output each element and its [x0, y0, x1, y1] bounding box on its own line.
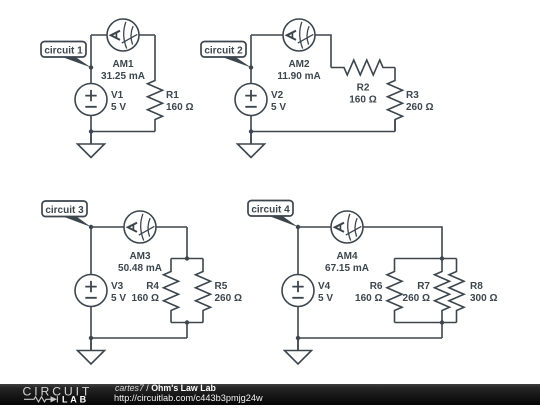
node circuit4 bottom node	[296, 336, 300, 340]
label callout "circuit 4"	[248, 201, 298, 228]
wire circuit2 left rail	[250, 35, 252, 144]
ammeter AM1	[107, 19, 139, 51]
svg-text:R6: R6	[370, 281, 383, 292]
label callout "circuit 3"	[42, 201, 91, 227]
node circuit4 parallel bottom node	[440, 320, 444, 324]
node circuit3 parallel top node	[185, 256, 189, 260]
voltage source V1	[75, 84, 107, 116]
wire circuit3 left rail	[90, 227, 92, 351]
svg-text:5 V: 5 V	[271, 102, 286, 113]
svg-text:V1: V1	[111, 90, 124, 101]
svg-text:R5: R5	[215, 281, 228, 292]
voltage source V3	[75, 275, 107, 307]
svg-text:V4: V4	[318, 281, 331, 292]
wire circuit3 bottom rail	[91, 337, 187, 339]
label callout "circuit 1"	[41, 42, 91, 68]
wire circuit4 parallel top bar	[395, 258, 457, 260]
resistor R7	[435, 259, 450, 323]
voltage source V2	[235, 84, 267, 116]
CircuitLab logo text	[23, 385, 93, 405]
svg-text:31.25 mA: 31.25 mA	[101, 71, 145, 82]
wire circuit4 top rail left	[298, 226, 331, 228]
wire circuit3 parallel bottom bar	[171, 322, 203, 324]
resistor R2	[331, 60, 395, 75]
svg-text:160 Ω: 160 Ω	[349, 95, 376, 106]
node circuit3 parallel bottom node	[185, 320, 189, 324]
svg-text:circuit 3: circuit 3	[45, 205, 84, 216]
svg-text:260 Ω: 260 Ω	[403, 293, 430, 304]
svg-text:11.90 mA: 11.90 mA	[277, 71, 320, 82]
resistor R5	[196, 259, 211, 323]
ground (circuit 3)	[78, 338, 105, 364]
node circuit1 bottom node	[89, 129, 93, 133]
ground (circuit 4)	[285, 338, 312, 364]
wire circuit3 parallel top bar	[171, 258, 203, 260]
resistor R4	[164, 259, 179, 323]
svg-text:160 Ω: 160 Ω	[355, 293, 382, 304]
svg-text:AM2: AM2	[288, 59, 310, 70]
svg-text:160 Ω: 160 Ω	[166, 102, 193, 113]
node circuit4 parallel top node	[440, 256, 444, 260]
voltage source V4	[282, 275, 314, 307]
wire circuit4 parallel bottom bar	[395, 322, 457, 324]
wire circuit4 left rail	[297, 227, 299, 351]
wire circuit3 lower drop	[186, 323, 188, 339]
ground (circuit 1)	[78, 132, 105, 158]
wire circuit4 lower drop	[441, 323, 443, 339]
ammeter AM2	[283, 19, 315, 51]
svg-text:5 V: 5 V	[318, 293, 333, 304]
svg-text:R1: R1	[166, 90, 179, 101]
svg-text:160 Ω: 160 Ω	[132, 293, 159, 304]
label callout "circuit 2"	[201, 42, 251, 68]
svg-text:R2: R2	[357, 83, 370, 94]
svg-text:50.48 mA: 50.48 mA	[118, 263, 162, 274]
wire circuit1 bottom rail	[91, 131, 155, 133]
logo resistor-diode glyph	[24, 396, 57, 402]
wire circuit2 top right segment	[283, 35, 331, 68]
node circuit2 label node	[249, 65, 253, 69]
svg-text:R7: R7	[417, 281, 430, 292]
wire circuit2 top rail	[251, 34, 283, 36]
node circuit3 bottom node	[89, 336, 93, 340]
svg-text:R3: R3	[406, 90, 419, 101]
svg-text:R4: R4	[146, 281, 159, 292]
footer bar	[0, 384, 540, 405]
wire circuit1 top rail	[91, 34, 155, 36]
svg-text:R8: R8	[470, 281, 483, 292]
svg-text:AM3: AM3	[129, 251, 151, 262]
svg-text:LAB: LAB	[62, 395, 89, 405]
resistor R3	[388, 68, 403, 132]
ammeter AM4	[331, 211, 363, 243]
svg-text:300 Ω: 300 Ω	[470, 293, 497, 304]
wire circuit4 bottom rail	[298, 337, 442, 339]
ammeter AM3	[124, 211, 156, 243]
wire circuit4 top rail right and drop	[363, 227, 442, 259]
svg-text:5 V: 5 V	[111, 293, 126, 304]
wire circuit3 right drop	[186, 227, 188, 259]
svg-text:http://circuitlab.com/c443b3pm: http://circuitlab.com/c443b3pmjg24w	[114, 393, 263, 403]
resistor R6	[387, 259, 402, 323]
node circuit3 label node	[89, 225, 93, 229]
resistor R1	[148, 68, 163, 132]
svg-text:AM1: AM1	[112, 59, 134, 70]
svg-text:V3: V3	[111, 281, 124, 292]
wire circuit1 right rail upper	[154, 35, 156, 68]
svg-text:AM4: AM4	[336, 251, 358, 262]
node circuit2 bottom node	[249, 129, 253, 133]
wire circuit3 top rail	[91, 226, 187, 228]
svg-text:circuit 1: circuit 1	[44, 45, 83, 56]
resistor R8	[449, 259, 464, 323]
svg-text:5 V: 5 V	[111, 102, 126, 113]
wire circuit2 bottom rail	[251, 131, 395, 133]
svg-text:260 Ω: 260 Ω	[215, 293, 242, 304]
svg-text:260 Ω: 260 Ω	[406, 102, 433, 113]
svg-text:V2: V2	[271, 90, 284, 101]
wire circuit2 right lower lead	[394, 120, 396, 132]
svg-text:circuit 4: circuit 4	[251, 204, 290, 215]
svg-text:circuit 2: circuit 2	[204, 45, 243, 56]
node circuit4 label node	[296, 225, 300, 229]
node circuit1 label node	[89, 65, 93, 69]
svg-text:67.15 mA: 67.15 mA	[325, 263, 369, 274]
wire circuit1 left rail	[90, 35, 92, 144]
svg-text:cartes7 / Ohm's Law Lab: cartes7 / Ohm's Law Lab	[115, 383, 216, 393]
ground (circuit 2)	[238, 132, 265, 158]
